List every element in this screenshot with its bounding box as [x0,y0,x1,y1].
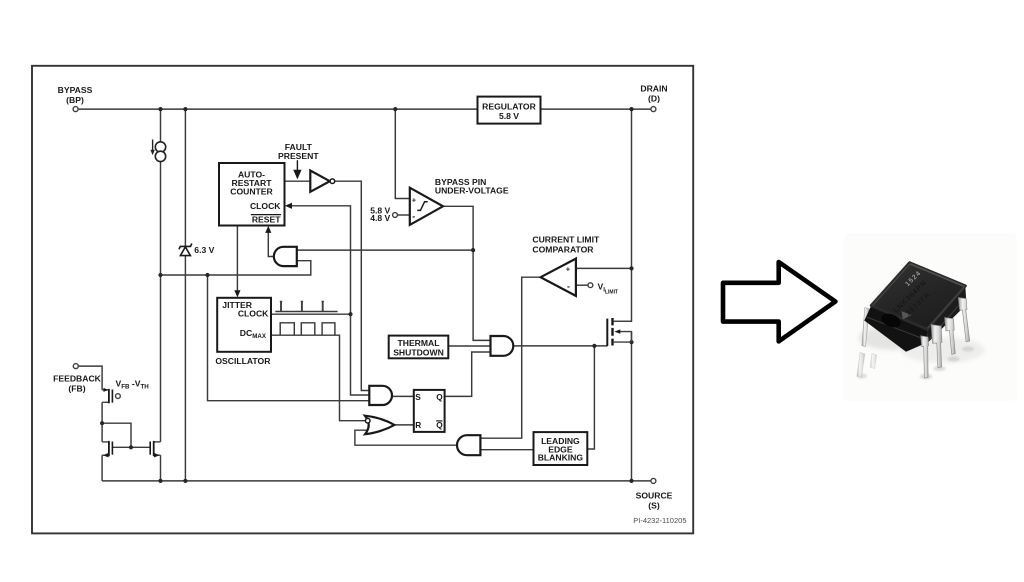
junction node feedback mirror [100,421,104,425]
wire zener branch vertical [184,109,186,481]
wire BYPASS rail (BP to DRAIN) [78,108,651,110]
svg-text:-: - [412,211,415,221]
wire current limit minus input [576,284,588,286]
wire predriver AND output to gate bar [513,345,607,347]
near-row pin 4 [958,298,969,342]
wire current-source branch vertical [160,109,162,442]
far-row pin L1 [862,308,869,347]
top face edge highlights [910,264,964,287]
near-row pin 2 [931,325,942,368]
terminal BYPASS (BP) [73,107,78,112]
AND gate G1 (reset, left-facing) [274,247,297,266]
svg-text:CLOCK: CLOCK [250,201,281,211]
junction node bias rail left [158,273,162,277]
svg-text:(D): (D) [648,94,660,104]
junction node MOSFET source sense [629,340,633,344]
power MOSFET Q1 [607,318,631,346]
far-row pin L3 [870,354,877,369]
arrowhead FAULT PRESENT (points down) [294,160,300,177]
wire blanking AND output to OR input [355,430,457,445]
far-row pin L2 [857,353,865,378]
svg-text:(S): (S) [648,500,660,510]
terminal VILIMIT input [588,283,593,288]
wire UV minus input [397,214,409,216]
wire latch Q output to predriver AND [445,352,491,396]
wire S-AND output to latch S [392,395,414,397]
svg-text:BLANKING: BLANKING [538,453,584,463]
svg-text:CLOCK: CLOCK [238,309,269,319]
IC photo of LNK364PN DIP-8 package [843,233,1017,401]
arrowhead CLOCK input (points left into counter) [285,203,292,209]
junction node current limit sense [629,266,633,270]
molded triangle mark [902,311,912,319]
svg-text:RESET: RESET [252,215,281,225]
wire gate line down to LEB box [587,346,594,449]
svg-text:Q: Q [436,392,443,402]
wire current limit plus input [576,267,632,269]
photo backdrop [843,233,1017,401]
junction node BP-UV sense [393,107,397,111]
wire FEEDBACK lead [78,366,102,390]
wire mirror left source [101,455,103,481]
box S-R latch U5 [414,390,445,432]
AND gate G4 (pre-driver) [491,336,514,356]
wire DCmax output to OR gate [271,335,365,421]
svg-text:CURRENT LIMIT: CURRENT LIMIT [532,234,600,244]
OR gate inverted input bubble [365,418,370,423]
wire fault inverter output to S-AND [335,181,370,390]
svg-text:REGULATOR: REGULATOR [482,101,536,111]
wire thermal shutdown output [448,345,490,347]
pin1 notch oval [879,311,903,330]
wire source vertical from MOSFET [631,332,633,481]
svg-text:+: + [412,196,417,205]
junction node mirror gates [129,445,133,449]
AND gate G2 (S input) [369,386,392,405]
wire UV comparator plus-input branch [395,109,410,198]
comparator U4 bypass pin under-voltage [410,188,443,225]
junction node drain [629,107,633,111]
svg-text:+: + [566,265,571,274]
wire mirror gate link [102,423,131,447]
svg-text:COMPARATOR: COMPARATOR [532,244,594,254]
wire SOURCE rail [102,480,651,482]
wire counter clock feed to oscillator [236,226,238,294]
svg-text:Q: Q [436,420,443,430]
package front-left side face [864,306,928,352]
chip marking text [885,270,938,323]
svg-text:PRESENT: PRESENT [278,151,319,161]
schematic outer frame [32,66,693,534]
svg-text:FEEDBACK: FEEDBACK [53,373,102,383]
junction node bias rail branch [205,273,209,277]
soft shadow under package [859,326,927,350]
box AUTO-RESTART COUNTER U2 [219,163,285,226]
svg-text:SOURCE: SOURCE [636,490,673,500]
wire LEB output to blanking AND [480,449,533,451]
svg-text:BYPASS: BYPASS [58,85,93,95]
wire mirror gate rail [112,446,150,448]
terminal SOURCE (S) [651,478,656,483]
wire fault inverter input [285,180,311,182]
wire UV comparator output down to predriver AND [443,206,491,340]
box REGULATOR 5.8 V [478,97,541,124]
wire jitter clock output [271,313,351,315]
MOSFET Q3 mirror left [102,441,112,458]
svg-text:THERMAL: THERMAL [397,338,439,348]
svg-text:R: R [415,420,421,430]
arrowhead counter to oscillator (points down) [234,290,240,297]
svg-text:OSCILLATOR: OSCILLATOR [215,356,271,366]
MOSFET Q4 mirror right [150,441,160,458]
svg-text:S: S [415,392,421,402]
AND gate G5 (blanking, left-facing) [457,435,480,455]
inverter U3 fault present [310,171,330,192]
Qbar overline [436,420,442,422]
package front-right side face [927,286,966,342]
svg-text:(FB): (FB) [68,384,85,394]
terminal DRAIN (D) [651,107,656,112]
wire current limit comparator output to blanking AND [480,277,540,438]
arrowhead RESET input (points up into counter) [265,226,271,233]
near-row pin 1 [921,336,929,378]
wire reset AND top input to UV line [297,249,473,251]
inverter bubble [330,179,335,184]
svg-text:5.8 V: 5.8 V [499,111,519,121]
junction node source rail current source [158,479,162,483]
junction node BP-zener [183,107,187,111]
box JITTER CLOCK oscillator [217,298,271,352]
box THERMAL SHUTDOWN [389,336,449,359]
pin tip shadows [920,374,932,379]
svg-text:6.3 V: 6.3 V [194,245,214,255]
svg-text:SHUTDOWN: SHUTDOWN [393,347,444,357]
junction node oscillator clock [348,312,352,316]
junction node BP-current source [158,107,162,111]
current source I1 (two circles with down arrow) [150,140,165,162]
junction node source rail zener [183,479,187,483]
OR gate G3 (R input) [365,416,395,435]
wire OR output to latch R [394,424,413,426]
RESET overline [251,214,281,216]
MOSFET Q2 feedback input (P-type with bubble) [102,388,120,403]
wire drain vertical to MOSFET [613,109,632,321]
wire bias rail y=275 [161,261,311,275]
svg-text:PI-4232-110205: PI-4232-110205 [633,516,686,525]
junction node gate drive / LEB [592,344,596,348]
comparator U6 current limit (left-facing) [541,259,576,296]
waveform clock ticks [275,311,337,313]
big arrow pointing to IC photo [723,262,835,341]
svg-text:(BP): (BP) [66,95,84,105]
svg-text:-: - [567,282,570,292]
junction node UV output / reset wire [471,248,475,252]
wire reset AND output to RESET port [268,229,274,257]
waveform DCmax square wave [280,323,335,335]
zener diode VZ 6.3V [179,244,192,256]
junction node source rail MOSFET [629,479,633,483]
svg-text:UNDER-VOLTAGE: UNDER-VOLTAGE [435,186,509,196]
svg-text:DRAIN: DRAIN [640,84,667,94]
terminal FEEDBACK (FB) [73,364,78,369]
wire bias branch to S-AND gate [208,275,370,401]
terminal UV threshold input 5.8V/4.8V [393,213,398,218]
wire feedback source to mirror [101,402,103,442]
box LEADING EDGE BLANKING [534,432,588,465]
svg-text:COUNTER: COUNTER [230,187,273,197]
mold seam lines [867,317,926,340]
package top face [871,263,965,330]
wire CLOCK port to oscillator junction [292,206,370,395]
svg-text:4.8 V: 4.8 V [370,213,390,223]
near-row pin 3 [945,318,956,355]
